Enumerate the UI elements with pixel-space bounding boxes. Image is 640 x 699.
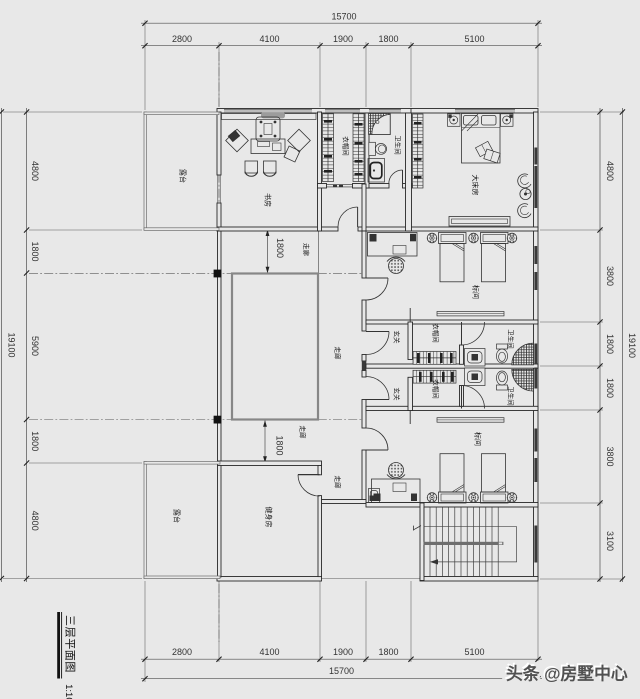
title block double rule [57, 612, 61, 679]
dim line right overall 19100 [621, 108, 623, 582]
wall study south / anteroom south [217, 227, 338, 231]
nightstand master left [448, 114, 461, 127]
wall suite north [366, 320, 538, 324]
window sill study [222, 114, 317, 120]
sliding door closet south [327, 185, 353, 187]
magazines on master bed [475, 141, 500, 163]
beds top standard room [439, 233, 509, 282]
wall suite divider closet/bath top [460, 345, 464, 364]
wall closet/bath divider [365, 113, 369, 188]
door suite bathroom top [462, 322, 485, 345]
svg-text:标间: 标间 [474, 432, 483, 446]
svg-text:1800: 1800 [605, 378, 615, 398]
svg-text:5900: 5900 [30, 336, 40, 356]
parapet terrace bottom [144, 462, 220, 579]
svg-text:1800: 1800 [275, 238, 285, 258]
dim line bottom segments [141, 658, 542, 660]
svg-text:1900: 1900 [333, 647, 353, 657]
wall suite divider closet/bath bottom [460, 386, 464, 407]
chair top standard room [387, 257, 405, 273]
door suite bathroom bottom [462, 386, 485, 409]
wardrobe top standard room [437, 312, 504, 316]
svg-text:3800: 3800 [605, 266, 615, 286]
wall anteroom east [362, 184, 366, 231]
rack closet left [323, 114, 334, 182]
watermark toutiao [504, 661, 628, 683]
column at x219 y273 [214, 270, 222, 278]
wall east exterior [534, 112, 539, 580]
svg-text:走廊: 走廊 [299, 426, 308, 440]
svg-text:1800: 1800 [378, 647, 398, 657]
svg-text:4100: 4100 [259, 34, 279, 44]
door top standard room [366, 278, 388, 300]
svg-text:2800: 2800 [172, 647, 192, 657]
wall west upper (terrace/study) [217, 112, 221, 175]
svg-text:5100: 5100 [464, 34, 484, 44]
door suite top [366, 332, 389, 355]
svg-text:大床房: 大床房 [471, 175, 480, 196]
wardrobe bottom standard room [437, 418, 504, 423]
svg-text:19100: 19100 [7, 332, 17, 357]
wall corridor east segments [362, 231, 366, 278]
svg-text:4100: 4100 [259, 647, 279, 657]
wall south gym [217, 577, 322, 582]
void opening rectangle [232, 274, 318, 420]
svg-text:衣帽间: 衣帽间 [432, 323, 441, 343]
window tab study [261, 112, 285, 118]
svg-text:1800: 1800 [30, 431, 40, 451]
svg-text:卫生间: 卫生间 [507, 329, 516, 349]
svg-text:三层平面图: 三层平面图 [64, 615, 77, 673]
svg-text:玄关: 玄关 [393, 331, 402, 345]
extension lines left [3, 112, 142, 579]
wall corridor south [322, 500, 367, 504]
small sink bottom room [369, 489, 380, 503]
door anteroom (leaf+arc) [338, 207, 358, 227]
svg-text:1800: 1800 [30, 241, 40, 261]
svg-text:3100: 3100 [605, 531, 615, 551]
extension lines bottom [145, 581, 538, 682]
corridor east edge line above void [318, 231, 320, 274]
stairs [414, 507, 534, 577]
toilet top bathroom [369, 142, 387, 155]
nightstand master right [501, 114, 514, 127]
window bars east wall [534, 148, 537, 563]
wall bath/master divider [406, 113, 412, 231]
dim line left overall 19100 [0, 108, 2, 582]
toilet suite top [496, 344, 507, 363]
dim line bottom overall 15700 [141, 678, 542, 680]
wall stub bottom room north [409, 410, 411, 424]
corridor dim 1800 bottom [263, 420, 284, 463]
corridor dim 1800 top [266, 230, 285, 274]
sink suite bottom [465, 368, 486, 386]
desk top standard room [368, 233, 418, 257]
wall stairwell west [420, 503, 424, 581]
svg-text:卫生间: 卫生间 [507, 386, 516, 406]
desk bottom standard room [372, 479, 421, 503]
rack closet right [353, 114, 364, 182]
wall stub top room south [409, 308, 411, 322]
svg-text:书房: 书房 [264, 193, 273, 207]
bed master [462, 114, 501, 164]
svg-text:健身房: 健身房 [265, 507, 274, 528]
svg-text:露台: 露台 [179, 169, 188, 183]
sink suite top [465, 349, 486, 367]
axis line horizontal y=273.3 [29, 272, 362, 274]
wall south stairwell [420, 577, 538, 582]
window master north [455, 109, 515, 112]
axis line vertical x=219 [218, 52, 220, 642]
round tables bottom standard room [427, 493, 517, 503]
window terrace door jambs west wall [218, 175, 220, 203]
svg-text:4800: 4800 [30, 161, 40, 181]
wall gym east upper pier [318, 466, 322, 475]
svg-text:衣帽间: 衣帽间 [342, 136, 351, 156]
rack suite bottom [413, 370, 456, 383]
svg-text:走廊: 走廊 [334, 347, 343, 361]
stair up mark [414, 526, 422, 530]
wall study east [318, 112, 322, 231]
round tables top standard room [427, 233, 517, 243]
svg-text:走廊: 走廊 [302, 243, 311, 257]
dim text right [605, 161, 637, 551]
door bottom standard room [366, 428, 388, 450]
svg-text:玄关: 玄关 [393, 388, 402, 402]
bench master bedroom [449, 217, 510, 227]
svg-text:走廊: 走廊 [334, 476, 343, 490]
shower suite bottom [512, 369, 534, 391]
floor edge line between gym and stair [322, 578, 421, 580]
svg-text:卫生间: 卫生间 [394, 135, 403, 155]
shower suite top [512, 343, 534, 365]
dim line right segments [599, 108, 601, 582]
wall gym north [218, 461, 322, 466]
svg-text:1800: 1800 [378, 34, 398, 44]
svg-text:1900: 1900 [333, 34, 353, 44]
svg-text:4800: 4800 [605, 161, 615, 181]
wall suite center [366, 364, 538, 368]
svg-text:1:100: 1:100 [63, 684, 74, 699]
svg-text:4800: 4800 [30, 511, 40, 531]
wall stairwell north [366, 503, 538, 508]
wall suite divider hall/closet bottom [408, 377, 413, 410]
column at x219 y419 [214, 416, 222, 424]
svg-text:5100: 5100 [464, 647, 484, 657]
dim ticks left [0, 109, 29, 581]
svg-text:19100: 19100 [627, 333, 637, 358]
parapet terrace top [144, 112, 219, 230]
chair bottom standard room [387, 463, 405, 479]
window in study south wall [283, 228, 297, 231]
door suite bottom [366, 377, 389, 400]
wall suite south [366, 406, 538, 410]
shaft on corridor wall [362, 361, 367, 371]
window study north [224, 109, 312, 112]
dim line top overall 15700 [141, 22, 542, 24]
rack suite top [413, 352, 456, 365]
door bath top (leaf+arc) [389, 170, 403, 184]
wardrobe master bedroom [413, 114, 424, 188]
window bath north [369, 109, 401, 112]
dim ticks bottom [142, 657, 540, 682]
extension lines top [145, 20, 538, 110]
dim line top segments [141, 45, 542, 47]
stair walk line with arrow [424, 527, 517, 562]
svg-text:露台: 露台 [173, 509, 182, 523]
wall north master bedroom [411, 109, 538, 114]
wall gym east lower [318, 496, 322, 577]
shower top bathroom [369, 114, 391, 135]
window closet north [325, 109, 360, 112]
beds bottom standard room [439, 454, 509, 503]
wall closet south [318, 184, 327, 189]
dim text top [172, 12, 485, 45]
svg-text:3800: 3800 [605, 446, 615, 466]
dim ticks right [597, 109, 625, 581]
svg-text:15700: 15700 [329, 666, 354, 676]
stair mid rail dark bar [424, 542, 504, 545]
study guest chairs [245, 161, 276, 176]
study desk set [226, 117, 311, 162]
dim line left segments [26, 108, 28, 582]
dim text left [7, 161, 41, 531]
sink top bathroom [368, 159, 385, 183]
toilet suite bottom [496, 371, 507, 390]
extension lines right [540, 112, 624, 579]
dim ticks top [142, 21, 540, 49]
svg-text:1800: 1800 [275, 435, 285, 455]
svg-text:1800: 1800 [605, 334, 615, 354]
svg-text:2800: 2800 [172, 34, 192, 44]
svg-text:头条 @房墅中心: 头条 @房墅中心 [506, 663, 628, 683]
wall north main (study/closet/bath) [217, 109, 412, 114]
wall west middle band [218, 231, 222, 463]
svg-text:标间: 标间 [472, 285, 481, 299]
svg-text:衣帽间: 衣帽间 [432, 379, 441, 399]
door gym [298, 475, 320, 497]
dim text bottom [172, 647, 485, 676]
wall west gym [218, 463, 222, 577]
svg-text:15700: 15700 [331, 12, 356, 22]
wall suite divider hall/closet top [408, 322, 413, 360]
chairs trio master [518, 174, 531, 218]
axis line horizontal y=419.6 [29, 419, 362, 421]
